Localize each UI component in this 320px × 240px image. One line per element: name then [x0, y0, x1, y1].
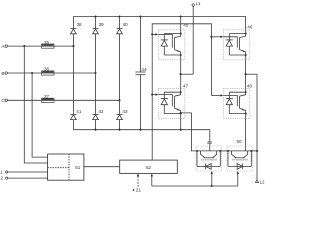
wire tap to module 49	[181, 113, 197, 151]
node top bus IGBT45 collector	[180, 15, 182, 17]
svg-text:21: 21	[136, 188, 142, 192]
wire IGBT47 emitter to bottom bus	[180, 118, 182, 129]
bridge column 2 wire	[95, 17, 97, 29]
svg-text:50: 50	[237, 139, 243, 144]
svg-text:52: 52	[146, 165, 152, 170]
wire tap B to block 51	[32, 73, 48, 157]
svg-text:11: 11	[0, 169, 3, 174]
switch module 49	[196, 146, 221, 171]
svg-text:B: B	[1, 71, 4, 77]
wire IGBT48 emitter to module 50	[245, 118, 247, 150]
svg-text:42: 42	[98, 109, 104, 114]
wire row A	[7, 45, 73, 47]
wire terminal 11 to block 51	[8, 171, 48, 173]
wire column 2 middle	[95, 34, 97, 115]
wire feedback to block 52	[151, 176, 153, 186]
wire module 50 to L2 riser	[251, 150, 257, 152]
diode 41	[70, 113, 76, 115]
wire column 2 bottom	[95, 120, 97, 130]
wire right leg midpoint	[245, 60, 247, 89]
wire IGBT45 collector riser	[180, 17, 182, 30]
node row A / bridge column 1	[72, 45, 74, 47]
node IGBT47 emitter tap	[180, 112, 182, 114]
bridge column 3 wire	[119, 17, 121, 29]
terminal L2	[256, 179, 259, 182]
wire gate control bus from 52	[152, 24, 211, 160]
node right midpoint	[245, 73, 247, 75]
svg-text:41: 41	[76, 109, 82, 114]
wire feedback line	[152, 185, 238, 187]
node bottom bus col2	[94, 129, 96, 131]
wire column 3 bottom	[119, 120, 121, 130]
terminal L1	[192, 4, 194, 6]
block 52 control unit	[120, 160, 178, 173]
node row A tap	[23, 45, 25, 47]
IGBT module 46	[223, 30, 250, 60]
svg-text:47: 47	[183, 84, 189, 89]
wire column 1 bottom	[72, 120, 74, 130]
svg-text:39: 39	[99, 22, 105, 27]
bridge column 1 wire	[72, 17, 74, 29]
svg-text:51: 51	[75, 165, 81, 170]
node gate 47	[151, 94, 153, 96]
node row B / bridge column 2	[94, 72, 96, 74]
IGBT module 48	[223, 88, 250, 118]
svg-text:48: 48	[247, 83, 253, 88]
node left midpoint	[180, 73, 182, 75]
resistor 37	[42, 99, 53, 100]
resistor 36	[42, 71, 53, 72]
wire row B	[7, 72, 95, 74]
svg-text:37: 37	[44, 94, 50, 99]
svg-text:12: 12	[0, 176, 3, 181]
wire DC+ top bus	[73, 17, 245, 30]
node bottom bus col3	[118, 129, 120, 131]
wire row C	[7, 99, 119, 101]
diode 42	[93, 113, 99, 115]
wire gate stub 48	[211, 94, 220, 96]
node bottom bus IGBT47 emitter	[180, 129, 182, 131]
node L2 riser / module 50	[256, 150, 258, 152]
IGBT module 45	[158, 30, 185, 60]
wire feedback to module 50	[237, 173, 239, 186]
svg-text:L2: L2	[260, 180, 265, 185]
node row B tap	[31, 72, 33, 74]
wire gate stub 47	[152, 94, 155, 96]
node gate 46	[210, 36, 212, 38]
wire midpoint to L1 riser	[181, 73, 194, 75]
wire L2 riser	[256, 74, 258, 179]
IGBT module 47	[158, 88, 185, 118]
wire column 1 middle	[72, 34, 74, 115]
wire block 51 to block 52	[84, 166, 120, 168]
wire terminal 12 to block 51	[8, 177, 48, 179]
svg-text:46: 46	[247, 24, 253, 29]
diode 38	[70, 28, 76, 30]
svg-text:45: 45	[183, 23, 189, 28]
svg-text:L1: L1	[196, 1, 201, 6]
svg-text:35: 35	[44, 40, 50, 45]
node row C / bridge column 3	[118, 99, 120, 101]
svg-text:40: 40	[123, 22, 129, 27]
svg-text:C: C	[1, 98, 5, 104]
wire feedback to module 49	[211, 173, 213, 186]
svg-text:38: 38	[77, 22, 83, 27]
wire gate stub 45	[152, 33, 155, 35]
node gate 45	[151, 33, 153, 35]
wire L1 riser	[192, 6, 194, 74]
svg-text:44: 44	[141, 67, 147, 72]
capacitor 44	[140, 17, 142, 73]
switch module 50	[227, 146, 252, 171]
svg-text:A: A	[1, 44, 5, 50]
wire midpoint to L2 riser	[246, 73, 257, 75]
wire left leg midpoint	[180, 60, 182, 89]
diode 40	[117, 28, 123, 30]
block 51 power supply	[48, 154, 84, 180]
wire tap A to block 51	[24, 46, 47, 163]
diode 43	[117, 113, 123, 115]
diode 39	[93, 28, 99, 30]
node top bus capacitor	[139, 15, 141, 17]
svg-text:43: 43	[122, 109, 128, 114]
svg-text:49: 49	[207, 140, 213, 145]
wire column 3 middle	[119, 34, 121, 115]
wire DC- bottom bus	[73, 130, 209, 151]
wire module 49 to module 50	[220, 150, 228, 152]
signal input 21 arrow	[137, 176, 139, 187]
node feedback module 49	[211, 185, 213, 187]
wire gate stub 46	[211, 36, 220, 38]
resistor 35	[42, 44, 53, 45]
svg-text:36: 36	[44, 67, 50, 72]
node top bus col3	[118, 15, 120, 17]
node bottom bus capacitor	[139, 129, 141, 131]
node top bus col2	[94, 15, 96, 17]
